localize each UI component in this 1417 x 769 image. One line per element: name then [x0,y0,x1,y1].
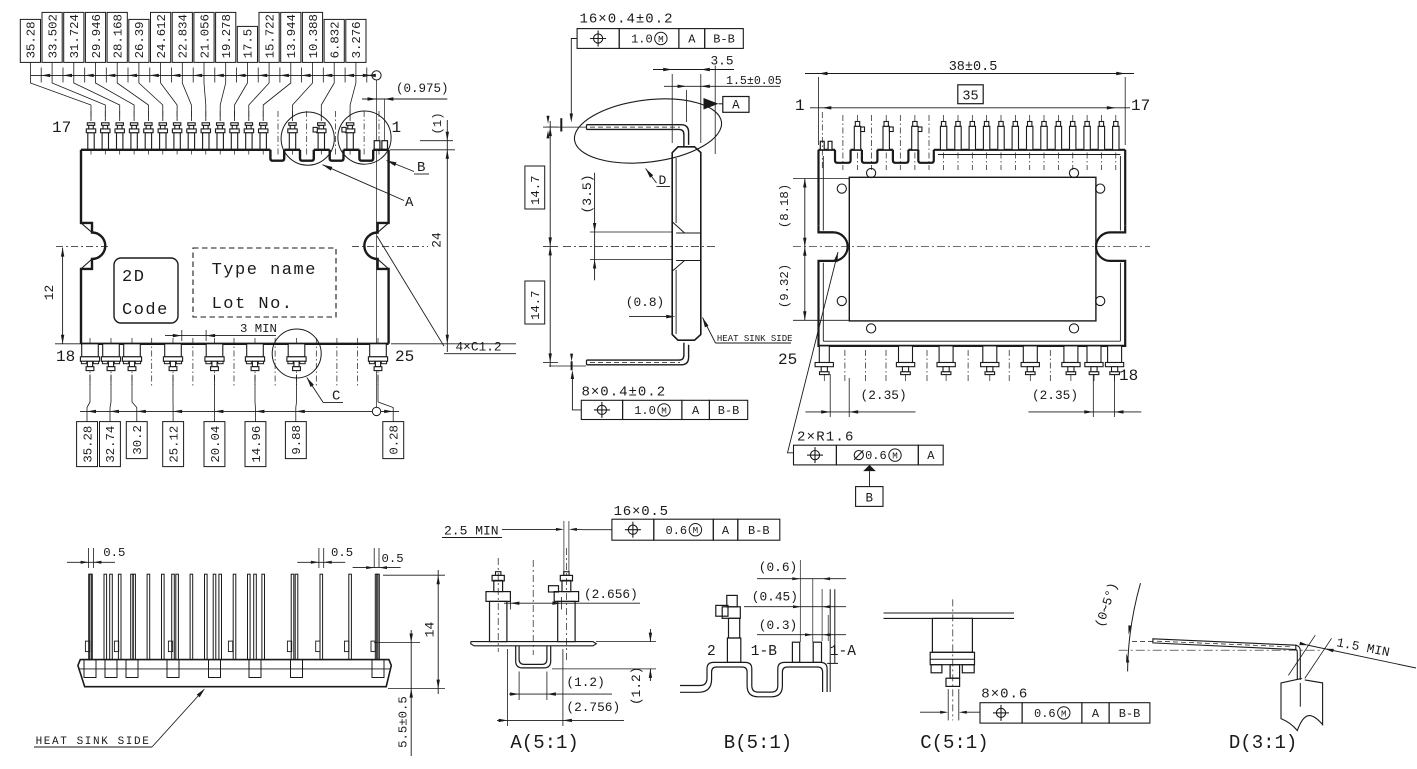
svg-text:35.28: 35.28 [81,426,95,463]
svg-text:2×R1.6: 2×R1.6 [797,430,855,446]
svg-text:8×0.4±0.2: 8×0.4±0.2 [582,385,667,401]
svg-text:A: A [405,195,414,211]
svg-text:24: 24 [430,232,445,248]
svg-text:18: 18 [56,348,75,366]
svg-text:2D: 2D [122,268,145,287]
svg-text:1: 1 [392,119,402,137]
svg-text:5.5±0.5: 5.5±0.5 [397,696,411,748]
svg-text:(8.18): (8.18) [778,184,792,228]
svg-text:18: 18 [1119,367,1138,385]
svg-text:M: M [892,450,898,461]
svg-text:0.28: 0.28 [388,425,402,455]
svg-text:17: 17 [1131,97,1150,115]
svg-text:(3.5): (3.5) [580,174,595,213]
svg-text:C: C [332,389,340,405]
svg-text:(0.6): (0.6) [759,560,797,575]
svg-text:1-A: 1-A [830,644,856,660]
svg-text:(2.656): (2.656) [584,587,638,602]
svg-text:29.946: 29.946 [90,14,104,58]
svg-text:6.832: 6.832 [329,21,343,58]
svg-text:25: 25 [395,348,414,366]
svg-text:16×0.4±0.2: 16×0.4±0.2 [580,12,674,28]
svg-text:(2.35): (2.35) [1032,388,1078,403]
svg-text:35.28: 35.28 [25,21,39,58]
svg-text:D(3:1): D(3:1) [1229,732,1297,754]
svg-text:1-B: 1-B [751,644,777,660]
svg-text:14.7: 14.7 [529,175,543,205]
svg-text:B-B: B-B [718,404,740,418]
svg-text:25.12: 25.12 [167,426,181,463]
svg-text:C(5:1): C(5:1) [920,732,988,754]
svg-text:B-B: B-B [1119,707,1141,721]
svg-text:14.96: 14.96 [250,426,264,463]
svg-text:12: 12 [42,285,57,300]
svg-text:3.5: 3.5 [710,54,733,69]
svg-text:A: A [927,449,935,463]
svg-text:31.724: 31.724 [68,14,82,58]
svg-text:9.88: 9.88 [290,425,304,455]
svg-text:38±0.5: 38±0.5 [949,60,998,75]
svg-text:24.612: 24.612 [155,14,169,58]
svg-text:A: A [722,524,730,538]
svg-text:14: 14 [423,622,438,638]
svg-text:(1.2): (1.2) [566,675,604,690]
svg-text:B: B [866,492,874,506]
svg-text:4×C1.2: 4×C1.2 [456,340,502,355]
svg-text:HEAT SINK SIDE: HEAT SINK SIDE [717,334,793,344]
svg-text:33.502: 33.502 [46,14,60,58]
svg-text:25: 25 [778,351,797,369]
svg-text:(1.2): (1.2) [629,667,644,705]
svg-text:1: 1 [795,97,805,115]
svg-text:16×0.5: 16×0.5 [614,504,669,520]
svg-text:3.276: 3.276 [350,21,364,58]
svg-text:19.278: 19.278 [220,14,234,58]
svg-text:B-B: B-B [748,524,770,538]
svg-text:A: A [688,33,696,47]
svg-text:2: 2 [707,644,716,660]
svg-text:M: M [693,525,699,536]
svg-text:0.5: 0.5 [331,546,353,560]
svg-text:35: 35 [962,89,978,104]
svg-text:15.722: 15.722 [263,14,277,58]
svg-text:(1): (1) [431,112,445,134]
svg-text:17.5: 17.5 [242,29,256,59]
svg-text:(0.45): (0.45) [752,590,798,605]
svg-text:0.6: 0.6 [865,449,887,463]
svg-text:2.5 MIN: 2.5 MIN [444,524,499,539]
svg-text:M: M [1061,708,1067,719]
svg-text:22.834: 22.834 [177,14,191,58]
svg-text:10.388: 10.388 [307,14,321,58]
svg-text:0.5: 0.5 [382,552,404,566]
svg-text:30.2: 30.2 [131,425,145,455]
svg-text:B: B [417,160,425,176]
svg-text:(2.35): (2.35) [861,388,907,403]
svg-text:26.39: 26.39 [133,21,147,58]
svg-text:(0.975): (0.975) [396,82,449,96]
svg-text:A: A [1092,707,1100,721]
svg-text:1.0: 1.0 [634,404,656,418]
svg-text:(0.8): (0.8) [626,295,664,310]
svg-text:(0.3): (0.3) [759,618,797,633]
svg-text:D: D [659,173,667,188]
svg-text:HEAT SINK SIDE: HEAT SINK SIDE [36,736,151,748]
svg-text:13.944: 13.944 [285,14,299,58]
svg-text:1.0: 1.0 [631,33,653,47]
svg-text:8×0.6: 8×0.6 [981,686,1028,702]
svg-text:32.74: 32.74 [104,426,118,463]
svg-text:(9.32): (9.32) [778,264,792,308]
svg-text:B-B: B-B [713,33,735,47]
svg-text:B(5:1): B(5:1) [724,732,792,754]
svg-text:28.168: 28.168 [112,14,126,58]
svg-text:20.04: 20.04 [209,426,223,463]
svg-text:(2.756): (2.756) [566,700,620,715]
svg-text:21.056: 21.056 [198,14,212,58]
svg-text:A(5:1): A(5:1) [510,732,578,754]
svg-text:A: A [732,98,740,112]
svg-text:17: 17 [52,119,71,137]
svg-text:3 MIN: 3 MIN [240,322,277,336]
svg-text:A: A [692,404,700,418]
svg-text:M: M [658,34,664,45]
svg-text:0.6: 0.6 [666,524,688,538]
svg-text:0.6: 0.6 [1034,707,1056,721]
svg-text:Code: Code [122,301,169,320]
svg-text:Type name: Type name [212,261,317,280]
svg-text:M: M [661,405,667,416]
svg-text:0.5: 0.5 [103,546,125,560]
svg-text:14.7: 14.7 [529,290,543,320]
svg-text:Lot No.: Lot No. [212,295,294,314]
